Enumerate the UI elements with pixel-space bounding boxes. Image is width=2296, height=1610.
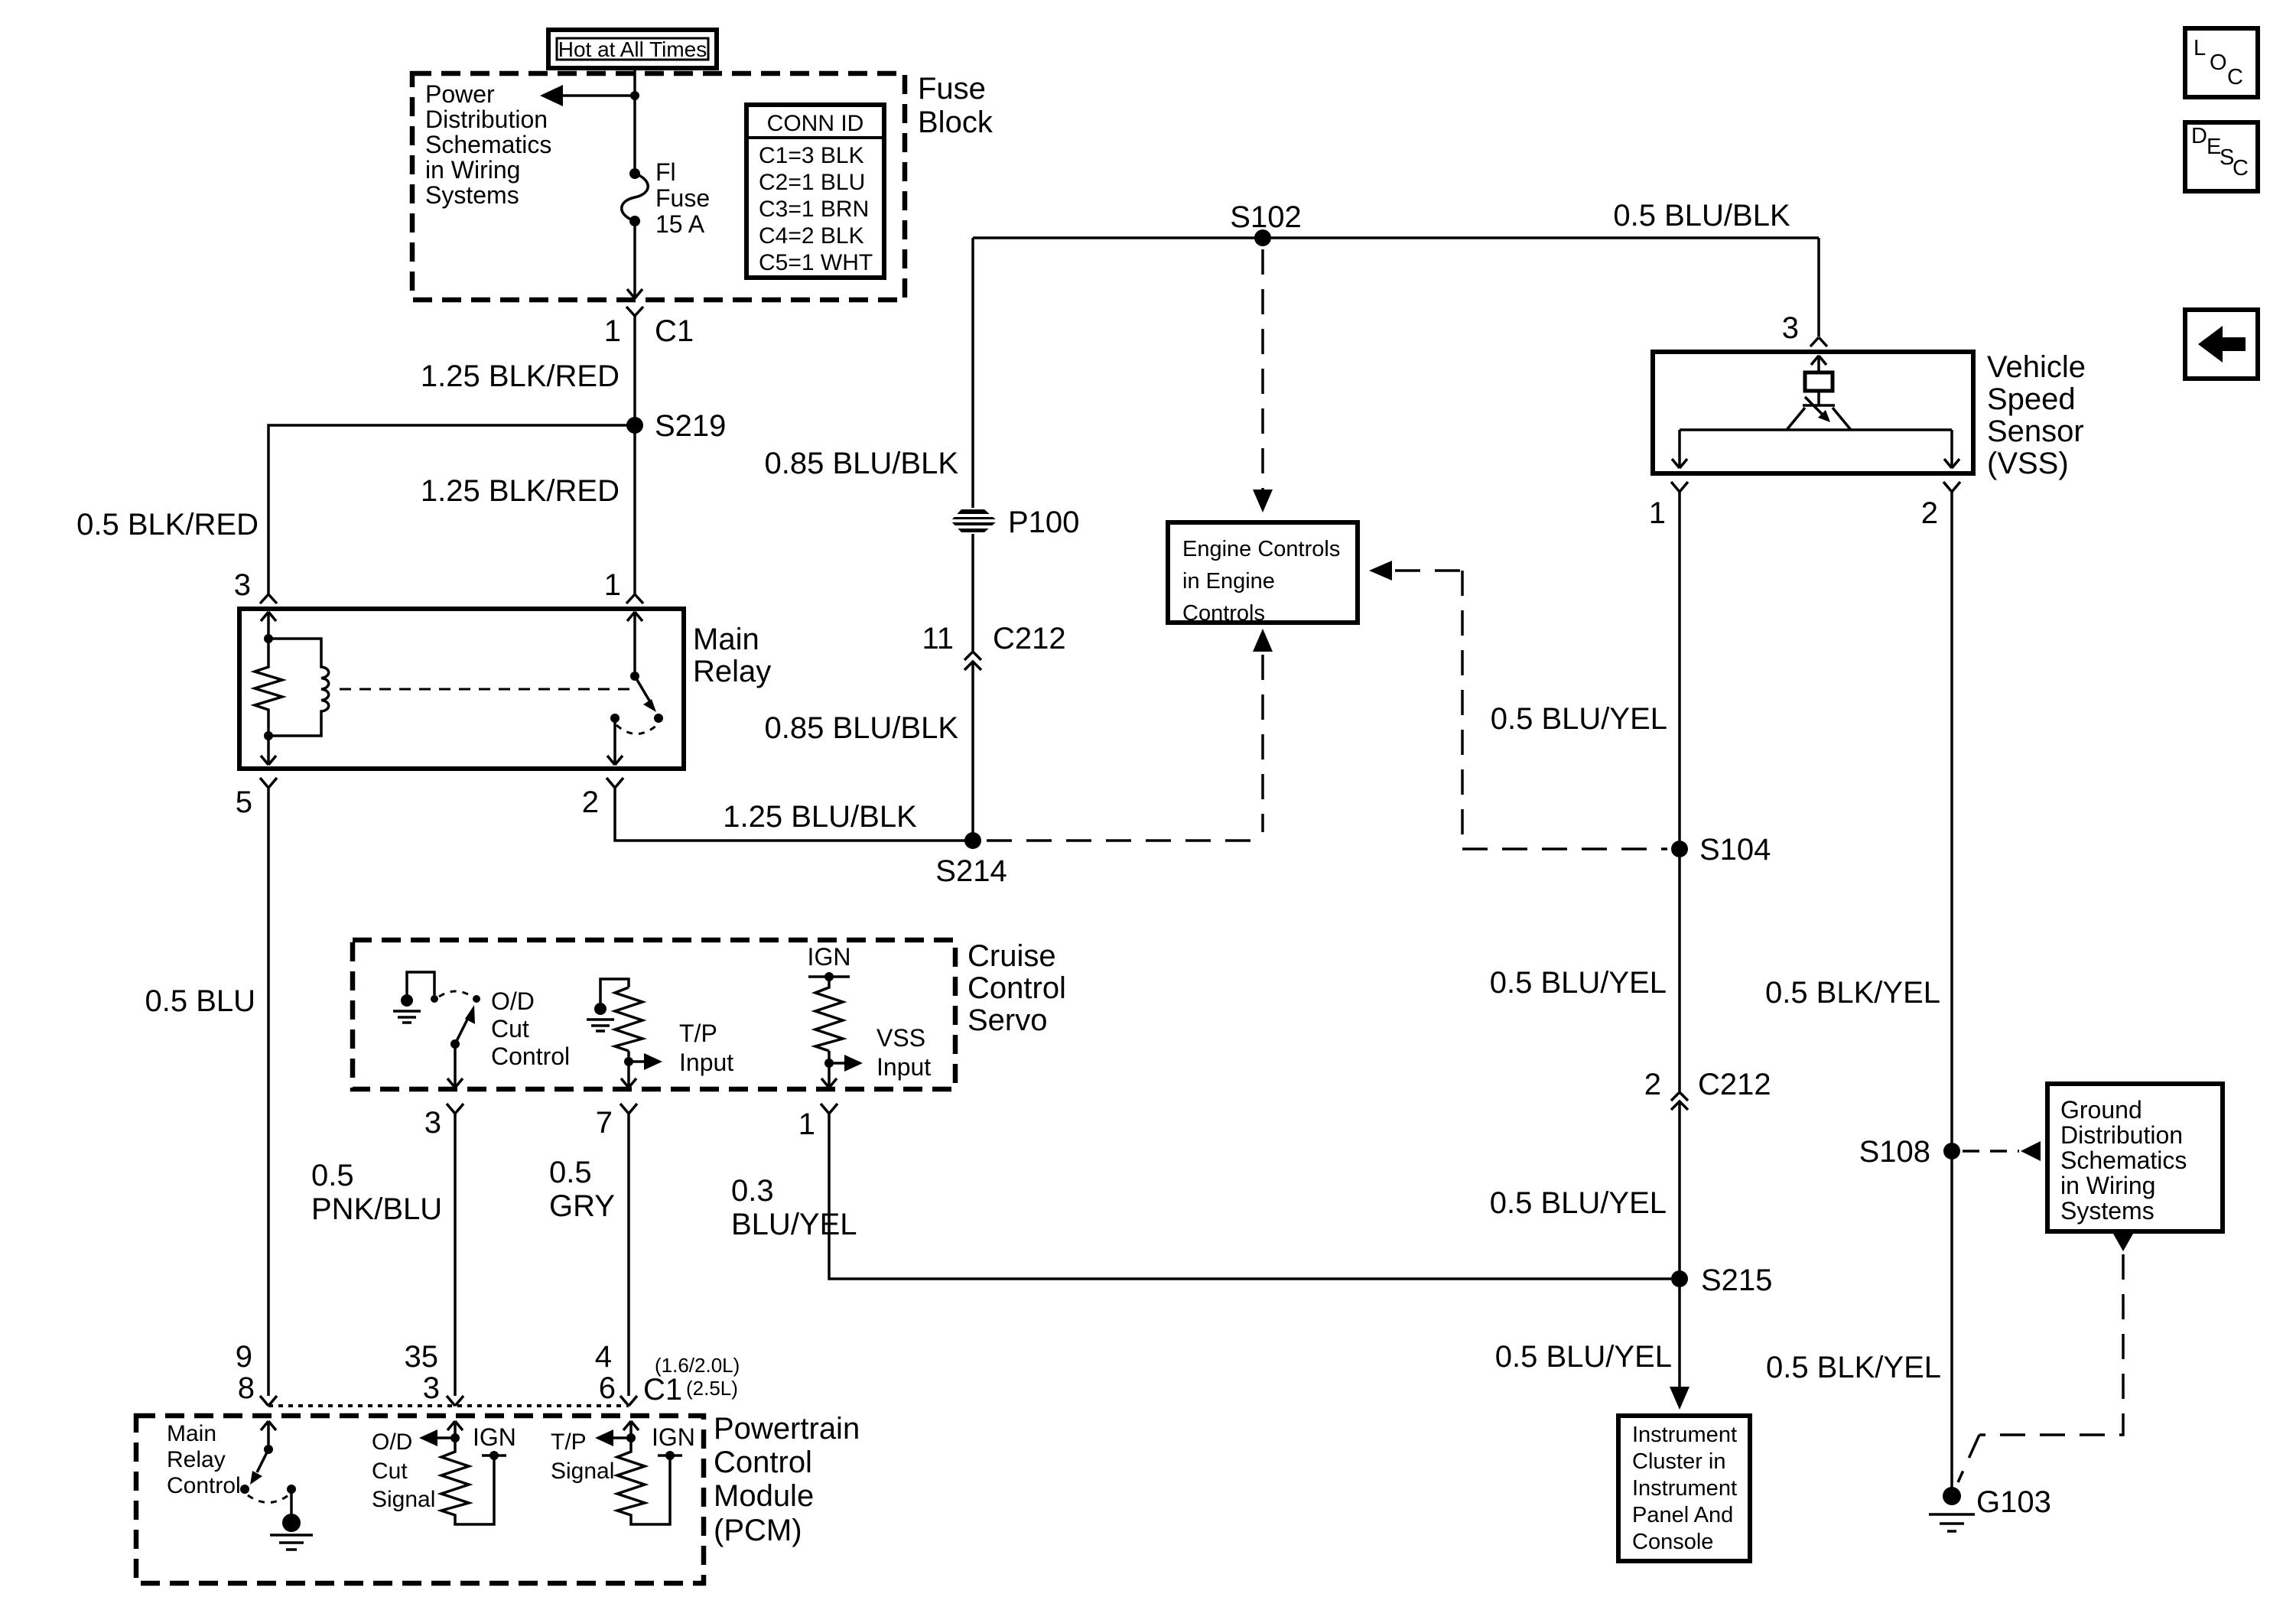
VSS pin 3 connector (1782, 311, 1827, 346)
svg-text:3: 3 (423, 1371, 440, 1405)
svg-text:Control: Control (167, 1473, 241, 1498)
svg-text:2: 2 (582, 785, 599, 819)
wire VSS pin 2 down to G103 (1950, 492, 1953, 1491)
svg-text:Controls: Controls (1182, 601, 1265, 626)
svg-text:3: 3 (234, 568, 251, 602)
splice S102 (1254, 229, 1271, 246)
splice S104 (1671, 841, 1688, 857)
svg-text:0.5 BLK/YEL: 0.5 BLK/YEL (1766, 1351, 1941, 1384)
wire servo pin 1 to S215 (829, 1114, 1671, 1279)
svg-text:C1: C1 (643, 1373, 682, 1407)
svg-text:CONN ID: CONN ID (767, 111, 864, 136)
splice S215 (1671, 1270, 1688, 1287)
S102 feed wire (horizontal) (973, 236, 1819, 239)
fuse FI 15A (622, 158, 710, 238)
svg-text:0.5: 0.5 (311, 1159, 354, 1192)
LOC legend box (top right) (2185, 28, 2258, 97)
svg-text:S219: S219 (655, 409, 726, 443)
svg-text:Instrument: Instrument (1632, 1423, 1737, 1447)
PCM switch fixed contact (240, 1485, 249, 1494)
svg-text:Cut: Cut (491, 1015, 529, 1042)
svg-text:1.25 BLK/RED: 1.25 BLK/RED (421, 359, 620, 393)
PCM main relay control entry arrow (up) (261, 1421, 276, 1449)
PCM pin 8 connector (260, 1396, 277, 1406)
svg-text:Ground: Ground (2060, 1096, 2142, 1124)
svg-text:Vehicle: Vehicle (1987, 350, 2086, 384)
arrow to power distribution (left) (555, 94, 635, 97)
svg-text:Control: Control (491, 1042, 570, 1070)
svg-text:O: O (2210, 50, 2227, 75)
servo IGN rail (808, 975, 850, 978)
svg-text:T/P: T/P (679, 1020, 717, 1047)
svg-text:9: 9 (236, 1340, 252, 1374)
svg-text:Main: Main (693, 623, 759, 656)
relay actuation dashed link (340, 688, 630, 691)
svg-text:6: 6 (599, 1371, 616, 1405)
svg-text:C212: C212 (1698, 1068, 1771, 1101)
svg-text:4: 4 (595, 1340, 612, 1374)
VSS pin 3 arrow (up) (1811, 356, 1826, 372)
VSS pickup (1803, 391, 1835, 405)
svg-text:0.5 BLU/YEL: 0.5 BLU/YEL (1491, 702, 1667, 736)
svg-text:Fl: Fl (655, 158, 676, 186)
VSS sensing element (1805, 372, 1833, 391)
svg-text:in Engine: in Engine (1182, 569, 1275, 594)
svg-text:PNK/BLU: PNK/BLU (311, 1192, 442, 1226)
wire servo pin 3 down to PCM (454, 1114, 457, 1396)
svg-text:C: C (2227, 65, 2243, 89)
svg-text:Fuse: Fuse (918, 72, 986, 106)
svg-text:IGN: IGN (808, 943, 851, 971)
dashed link S108 to ground distribution (1963, 1150, 2019, 1153)
servo VSS wire to pin 1 arrow (down) (821, 1063, 837, 1088)
servo pin 3 connector (424, 1104, 463, 1140)
svg-text:C3=1 BRN: C3=1 BRN (759, 197, 869, 222)
dashed link S214 to engine controls drop (987, 839, 1263, 842)
svg-text:(VSS): (VSS) (1987, 447, 2069, 480)
svg-text:1: 1 (798, 1107, 815, 1141)
wire VSS pin 1 down to instrument cluster (1678, 492, 1681, 1388)
splice S214 (964, 832, 981, 849)
relay switch pin 1 arrow (up) (627, 612, 642, 676)
servo pin 1 connector (798, 1104, 837, 1141)
svg-text:Relay: Relay (167, 1447, 226, 1472)
svg-text:7: 7 (596, 1106, 613, 1140)
svg-text:Servo: Servo (968, 1003, 1048, 1037)
wire servo pin 7 down to PCM (627, 1114, 630, 1396)
PCM T/P pull-up resistor (617, 1438, 670, 1524)
svg-text:L: L (2194, 36, 2206, 60)
svg-text:G103: G103 (1976, 1485, 2051, 1519)
svg-text:D: D (2191, 124, 2207, 148)
dashed arrow from ground distribution down (2113, 1234, 2133, 1251)
DESC legend box (top right) (2185, 122, 2258, 191)
svg-text:Systems: Systems (2060, 1197, 2155, 1225)
relay resistor (255, 639, 282, 736)
dashed drop S102 to Engine Controls (1261, 249, 1264, 490)
Engine Controls box (1168, 522, 1358, 623)
svg-text:C: C (2233, 156, 2249, 181)
svg-text:Control: Control (968, 971, 1066, 1005)
svg-text:5: 5 (236, 785, 252, 819)
svg-text:1: 1 (1649, 496, 1666, 530)
svg-text:Cluster in: Cluster in (1632, 1449, 1726, 1474)
svg-text:Relay: Relay (693, 655, 771, 688)
VSS internal bus (1680, 428, 1952, 431)
svg-text:GRY: GRY (549, 1189, 615, 1223)
connector C212 pin 2 (1644, 1068, 1771, 1110)
PCM O/D cut entry arrow (up) (447, 1421, 463, 1438)
dashed link to S104 (1462, 847, 1667, 851)
Powertrain Control Module dashed box (136, 1416, 704, 1583)
svg-text:Distribution: Distribution (425, 106, 548, 133)
servo O/D switch contact (473, 995, 480, 1003)
relay switch moving contact (654, 714, 663, 723)
Instrument Cluster box (1618, 1416, 1750, 1561)
svg-text:1.25 BLK/RED: 1.25 BLK/RED (421, 474, 620, 508)
Fuse Block dashed box (412, 73, 905, 300)
svg-text:Module: Module (714, 1479, 814, 1513)
svg-text:IGN: IGN (652, 1423, 695, 1451)
VSS pin 1 connector (1649, 482, 1688, 530)
svg-text:2: 2 (1921, 496, 1938, 530)
svg-text:C4=2 BLK: C4=2 BLK (759, 223, 864, 249)
svg-text:C1: C1 (655, 314, 694, 348)
relay coil-side pin arrow (pin 3, up) (261, 612, 276, 639)
wire C1 to S219 (633, 316, 636, 425)
relay switch fixed contact (610, 714, 620, 723)
PCM T/P IGN rail (658, 1454, 682, 1457)
relay node (coil bottom) (264, 731, 273, 740)
svg-text:O/D: O/D (491, 987, 535, 1015)
svg-text:Console: Console (1632, 1530, 1713, 1554)
servo O/D hook contact (431, 995, 438, 1003)
svg-text:Hot at All Times: Hot at All Times (558, 37, 707, 61)
servo O/D switch arm (455, 1018, 468, 1044)
dashed arrow into Engine Controls bottom (1253, 629, 1273, 652)
svg-text:Block: Block (918, 106, 994, 139)
relay switch pivot (630, 672, 639, 681)
connector C1 pin 1 below fuse block (604, 307, 694, 348)
servo O/D internal ground (393, 994, 421, 1023)
svg-text:Cut: Cut (372, 1459, 408, 1484)
PCM O/D pull-up resistor (441, 1438, 494, 1524)
VSS pin 2 connector (1921, 482, 1960, 530)
back-arrow legend box (right) (2185, 310, 2258, 379)
PCM switch arm (257, 1449, 268, 1472)
relay pin 3 connector (234, 568, 277, 603)
svg-text:1: 1 (604, 314, 621, 348)
Main Relay box (239, 609, 684, 769)
CONN ID table (746, 105, 884, 278)
svg-text:C2=1 BLU: C2=1 BLU (759, 170, 865, 195)
svg-text:S214: S214 (935, 854, 1007, 888)
svg-text:Schematics: Schematics (425, 131, 551, 158)
PCM T/P entry arrow (up) (623, 1421, 639, 1438)
svg-text:Panel And: Panel And (1632, 1503, 1733, 1527)
svg-text:in Wiring: in Wiring (425, 156, 520, 184)
Cruise Control Servo dashed box (353, 940, 955, 1089)
branch wire S219 left and down to relay pin 3 (268, 425, 635, 594)
svg-text:Signal: Signal (551, 1459, 614, 1484)
svg-text:Cruise: Cruise (968, 939, 1056, 973)
wire fuse to fuse block edge, arrow down (633, 221, 636, 298)
Hot at All Times box (548, 30, 717, 68)
svg-text:VSS: VSS (876, 1024, 925, 1052)
svg-text:0.5 BLU/YEL: 0.5 BLU/YEL (1490, 1186, 1667, 1220)
svg-text:Schematics: Schematics (2060, 1147, 2187, 1174)
node on fuse feed wire (630, 91, 639, 100)
PCM pin 3 connector (447, 1396, 463, 1406)
PCM switch ground contact (287, 1485, 296, 1494)
PCM connector C1 dotted gang line (268, 1404, 629, 1407)
svg-text:Powertrain: Powertrain (714, 1412, 860, 1446)
svg-text:Signal: Signal (372, 1487, 435, 1512)
svg-text:0.5 BLU: 0.5 BLU (145, 984, 255, 1018)
servo pin 7 connector (596, 1104, 637, 1140)
servo T/P internal ground (587, 1003, 614, 1031)
relay pin 1 connector (604, 568, 643, 603)
svg-text:0.5 BLK/YEL: 0.5 BLK/YEL (1765, 976, 1940, 1010)
wire S219 to relay pin 1 (633, 425, 636, 594)
relay pin 5 connector (236, 778, 277, 819)
svg-text:3: 3 (1782, 311, 1799, 345)
svg-text:S104: S104 (1699, 833, 1771, 867)
servo T/P wire to pin 7 arrow (down) (621, 1062, 636, 1088)
PCM pin 6 connector (620, 1396, 637, 1406)
svg-text:Main: Main (167, 1421, 216, 1446)
splice S219 (626, 417, 643, 434)
svg-text:P100: P100 (1008, 506, 1079, 539)
PCM T/P signal arrow (left) (606, 1436, 631, 1439)
connector C212 pin 11 (922, 622, 1065, 670)
servo O/D switch pivot (450, 1039, 460, 1049)
wire from Hot at All Times down into fuse block (633, 68, 636, 173)
svg-text:0.3: 0.3 (731, 1174, 774, 1208)
PCM switch pivot (264, 1445, 273, 1454)
svg-text:Speed: Speed (1987, 382, 2076, 416)
relay pin 2 exit arrow (down) (607, 718, 623, 765)
svg-text:Instrument: Instrument (1632, 1476, 1737, 1501)
grommet P100 (951, 509, 997, 532)
svg-text:Engine Controls: Engine Controls (1182, 537, 1340, 561)
relay switch dashed travel arc (616, 725, 657, 734)
servo VSS tap (824, 1059, 834, 1068)
relay pin 2 connector (582, 778, 623, 819)
relay node (coil top) (264, 634, 273, 643)
servo O/D wire to pin 3 arrow (down) (447, 1044, 463, 1088)
servo VSS resistor (815, 977, 843, 1051)
svg-text:0.5 BLU/BLK: 0.5 BLU/BLK (1613, 199, 1790, 233)
svg-text:in Wiring: in Wiring (2060, 1172, 2155, 1199)
VSS output fork (1787, 408, 1851, 430)
servo O/D ground hook (407, 972, 434, 995)
svg-text:1.25 BLU/BLK: 1.25 BLU/BLK (723, 800, 917, 834)
dashed arrow into Engine Controls right side (1369, 561, 1392, 581)
VSS pin 1 arrow (down) (1672, 430, 1687, 468)
svg-text:IGN: IGN (473, 1423, 516, 1451)
svg-text:0.5 BLK/RED: 0.5 BLK/RED (76, 508, 259, 542)
svg-text:Control: Control (714, 1446, 812, 1479)
svg-text:(PCM): (PCM) (714, 1514, 802, 1547)
svg-text:11: 11 (922, 622, 954, 655)
svg-text:0.85 BLU/BLK: 0.85 BLU/BLK (765, 711, 959, 745)
svg-text:0.5 BLU/YEL: 0.5 BLU/YEL (1490, 966, 1667, 1000)
PCM switch travel arc (dashed) (248, 1495, 288, 1503)
svg-text:15 A: 15 A (655, 210, 705, 238)
servo T/P ground hook (600, 979, 629, 1003)
svg-text:S108: S108 (1859, 1135, 1930, 1169)
svg-text:3: 3 (424, 1106, 441, 1140)
PCM T/P node (626, 1433, 636, 1442)
svg-text:T/P: T/P (551, 1429, 587, 1455)
svg-text:C5=1 WHT: C5=1 WHT (759, 250, 873, 275)
relay pin 5 exit arrow (down) (261, 736, 276, 765)
svg-text:1: 1 (604, 568, 621, 602)
svg-text:C1=3 BLK: C1=3 BLK (759, 143, 864, 168)
svg-text:Fuse: Fuse (655, 184, 710, 212)
svg-text:(2.5L): (2.5L) (686, 1377, 738, 1400)
svg-text:Power: Power (425, 80, 495, 108)
Ground Distribution box (2047, 1084, 2223, 1231)
servo T/P tap (624, 1057, 633, 1066)
servo T/P resistor (615, 987, 642, 1051)
PCM O/D IGN rail (482, 1454, 506, 1457)
PCM O/D node (450, 1433, 460, 1442)
svg-text:Sensor: Sensor (1987, 415, 2084, 448)
VSS pin 2 arrow (down) (1944, 430, 1959, 468)
svg-text:BLU/YEL: BLU/YEL (731, 1208, 857, 1241)
relay coil (268, 639, 329, 736)
svg-text:Input: Input (679, 1049, 733, 1076)
svg-text:Systems: Systems (425, 181, 519, 209)
Vehicle Speed Sensor box (1653, 352, 1973, 473)
Power Distribution note (425, 80, 551, 209)
svg-text:O/D: O/D (372, 1429, 412, 1455)
svg-text:S102: S102 (1230, 200, 1301, 234)
svg-text:S215: S215 (1701, 1264, 1772, 1297)
servo O/D switch travel arc (dashed) (439, 991, 472, 997)
svg-text:0.5 BLU/YEL: 0.5 BLU/YEL (1495, 1340, 1672, 1374)
svg-text:0.85 BLU/BLK: 0.85 BLU/BLK (765, 447, 959, 480)
svg-text:Distribution: Distribution (2060, 1121, 2183, 1149)
PCM internal ground (270, 1489, 313, 1550)
wire relay pin 5 down to PCM pin 8 (267, 788, 270, 1396)
svg-text:C212: C212 (993, 622, 1066, 655)
svg-text:Input: Input (876, 1053, 931, 1081)
svg-text:2: 2 (1644, 1068, 1661, 1101)
relay switch arm (635, 676, 649, 701)
splice S108 (1943, 1143, 1960, 1160)
VSS feed drop (1817, 238, 1820, 337)
svg-text:0.5: 0.5 (549, 1156, 592, 1189)
svg-text:35: 35 (405, 1340, 439, 1374)
PCM O/D cut signal arrow (left) (430, 1436, 455, 1439)
wire relay pin 2 to S214 (615, 788, 973, 841)
svg-text:8: 8 (238, 1371, 255, 1405)
ground G103 (1929, 1485, 2051, 1531)
wire S102 down to S214 (971, 238, 974, 841)
